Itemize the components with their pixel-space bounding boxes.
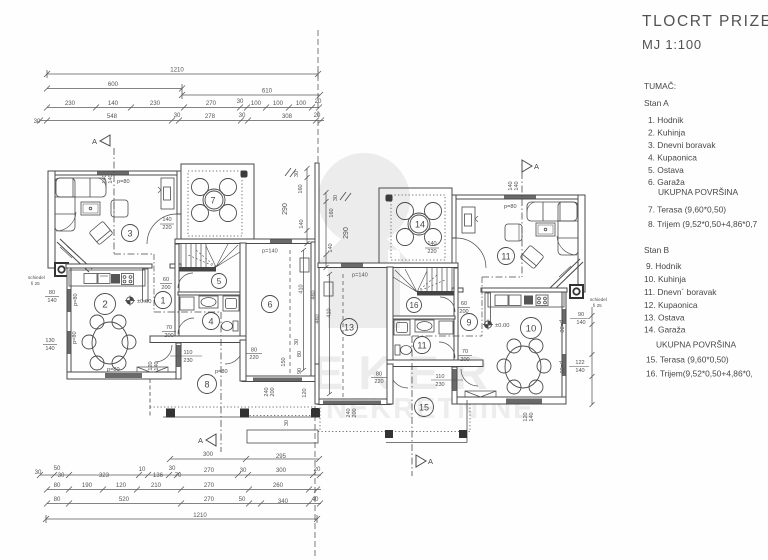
svg-text:30: 30 [333,195,339,201]
entrance door A arc [155,345,172,362]
svg-text:200: 200 [270,387,276,396]
hall room circle 9 [461,314,478,331]
svg-text:295: 295 [276,453,287,460]
garage A left wall lower [240,340,246,381]
kitchen A bottom window p=80 [105,373,142,378]
svg-text:50: 50 [54,465,61,472]
svg-text:A: A [92,137,97,146]
svg-text:50: 50 [239,496,246,503]
fridge B [485,293,491,325]
bath room circle 12 [414,337,431,354]
svg-text:15. Terasa (9,60*0,50): 15. Terasa (9,60*0,50) [646,355,729,365]
section marker B top [522,160,532,172]
svg-text:270: 270 [204,482,215,489]
entrance door B arc [461,369,478,386]
svg-text:160: 160 [329,208,335,217]
svg-text:340: 340 [278,498,289,505]
svg-text:230: 230 [150,100,161,107]
svg-text:30: 30 [58,472,65,479]
svg-text:±0.00: ±0.00 [137,299,151,305]
svg-text:2: 2 [102,300,108,311]
svg-text:p=80: p=80 [558,320,564,333]
svg-text:p=80: p=80 [107,367,120,373]
svg-text:270: 270 [204,467,215,474]
svg-text:20: 20 [314,466,321,473]
svg-text:UKUPNA POVRŠINA: UKUPNA POVRŠINA [658,187,738,197]
svg-text:5. Ostava: 5. Ostava [648,165,684,175]
svg-text:11: 11 [501,252,510,262]
svg-text:60: 60 [163,277,169,283]
svg-text:11: 11 [417,341,426,351]
svg-text:16: 16 [410,301,419,310]
svg-text:A: A [534,162,539,171]
svg-text:460: 460 [311,290,317,299]
svg-text:1210: 1210 [170,67,184,74]
stairs B [393,268,458,296]
porch B posts [312,408,319,415]
porch A posts [166,409,175,418]
svg-text:30: 30 [34,118,41,125]
svg-text:230: 230 [435,382,444,388]
svg-text:270: 270 [206,100,217,107]
wall living/kitchen A [66,264,152,268]
svg-text:6: 6 [267,300,272,310]
svg-text:9: 9 [466,318,471,328]
section jog lines [154,311,221,313]
svg-text:30: 30 [239,112,246,119]
svg-text:A: A [428,457,433,466]
step box A [137,367,168,379]
fireplace diagonal wall A [57,242,89,272]
svg-text:140: 140 [108,100,119,107]
svg-text:p=80: p=80 [72,331,78,344]
living room circle 11 [498,248,515,265]
living A coffee table [81,202,100,215]
svg-text:122: 122 [575,360,584,366]
svg-text:A: A [198,436,203,445]
svg-text:140: 140 [575,368,584,374]
window garage B top p=140 [341,264,363,268]
svg-text:140: 140 [299,219,305,228]
svg-text:p=80: p=80 [558,361,564,374]
svg-text:fi 25: fi 25 [593,303,602,308]
bottom dimension chains [37,406,323,556]
dim row 230 140 230 270 ... [47,107,319,109]
svg-text:200: 200 [352,408,358,417]
svg-text:140: 140 [108,174,114,183]
svg-text:140: 140 [576,320,585,326]
svg-text:230: 230 [183,358,192,364]
svg-text:110: 110 [436,374,445,380]
svg-text:120: 120 [116,482,127,489]
kitchen B left lower wall [452,367,457,404]
svg-text:548: 548 [107,113,118,120]
living B corner sofa [527,202,578,255]
terrace B chimney dot [386,195,393,202]
terrace A table 7 group [192,179,237,222]
svg-text:80: 80 [251,348,257,354]
svg-text:140: 140 [514,181,520,190]
porch B dashed outline [318,400,470,443]
terrace B table 14 group [397,203,442,246]
hall room circle 1 [155,292,172,309]
kitchen B right windows [563,309,566,324]
garage B porch door arc [390,370,408,388]
svg-text:160: 160 [298,184,304,193]
porch room circle 15 [415,398,434,417]
bottom wall hall/bath B [387,360,483,367]
section line A left [114,148,221,452]
garage A water heater box [300,258,309,272]
svg-text:MJ 1:100: MJ 1:100 [642,37,702,52]
stair room circle B [407,298,422,313]
stair room circle 5 [212,274,227,289]
living room circle 3 [122,225,139,242]
party wall A side [311,242,315,381]
bath A door arc [178,318,194,334]
kitchen room circle 10 [521,318,542,339]
wall bath/garage B [387,267,393,364]
svg-text:520: 520 [119,496,130,503]
side yard dim line B [324,190,329,270]
svg-text:140: 140 [529,412,535,421]
svg-text:323: 323 [99,472,110,479]
svg-text:220: 220 [162,225,171,231]
svg-text:p=80: p=80 [504,204,517,210]
svg-text:6. Garaža: 6. Garaža [648,177,685,187]
hall dash-dot divide B [481,277,483,336]
svg-text:120: 120 [302,388,308,397]
svg-text:210: 210 [151,482,162,489]
svg-text:200: 200 [161,285,170,291]
living A armchair [111,200,128,217]
svg-text:Stan A: Stan A [644,98,669,108]
svg-text:260: 260 [273,482,284,489]
dim row 300 295 [170,458,319,460]
toilet B [395,345,412,355]
svg-text:80: 80 [54,496,61,503]
svg-text:15: 15 [419,403,429,413]
porch A dashed outline [150,379,318,443]
fireplace diagonal wall B [553,262,583,291]
svg-text:TUMAČ:: TUMAČ: [644,81,676,91]
storage door arc A [178,273,193,288]
svg-text:80: 80 [376,372,382,378]
svg-text:140: 140 [45,346,54,352]
party wall axis dashed [317,30,319,163]
kitchen counter A [69,270,145,286]
kitchen counter B [488,292,564,307]
svg-text:190: 190 [82,482,93,489]
living A armchair rotated [89,221,113,245]
living room A right wall [177,171,181,214]
svg-text:10: 10 [526,324,537,335]
section line B [412,172,522,476]
window top living B p=80 [504,196,536,199]
svg-text:Stan B: Stan B [644,245,670,255]
svg-text:10. Kuhinja: 10. Kuhinja [644,274,686,284]
garage B left wall lower [315,364,319,404]
section marker A bottom [206,434,216,446]
svg-text:70: 70 [175,472,182,479]
svg-text:30: 30 [240,467,247,474]
svg-text:290: 290 [343,227,350,239]
svg-text:p=80: p=80 [215,369,228,375]
title block [642,13,768,52]
svg-text:9. Hodnik: 9. Hodnik [646,261,682,271]
living A corner sofa [55,178,106,231]
wall bath/garage A [240,243,246,340]
svg-text:30: 30 [35,469,42,476]
living B armchair [505,224,522,241]
svg-text:7. Terasa (9,60*0,50): 7. Terasa (9,60*0,50) [648,205,726,215]
hall/kitchen right wall A [175,244,179,340]
svg-text:4. Kupaonica: 4. Kupaonica [648,153,697,163]
svg-text:8: 8 [204,380,209,390]
bath B door arc [439,342,455,358]
svg-text:20: 20 [315,98,322,105]
svg-text:2. Kuhinja: 2. Kuhinja [648,128,686,138]
terrace A outline [181,164,254,240]
party wall B side [315,163,319,402]
svg-text:140: 140 [328,243,334,252]
svg-text:TLOCRT PRIZEMLJA: TLOCRT PRIZEMLJA [642,13,768,30]
kitchen A left windows [68,289,71,312]
svg-text:80: 80 [54,482,61,489]
svg-text:80: 80 [297,351,303,357]
svg-text:7: 7 [210,196,215,206]
section marker B bottom [416,455,426,467]
wall stairs/garage top A [175,239,315,244]
right margin dim chain [590,307,595,407]
entrance door B panel [453,369,457,391]
svg-text:30: 30 [174,112,181,119]
garage A interior dim line 410 [301,248,306,372]
small dimension labels [28,171,607,426]
svg-text:110: 110 [184,350,193,356]
side yard dim line A [305,166,310,246]
svg-text:13. Ostava: 13. Ostava [644,313,685,323]
level mark B [483,320,493,330]
svg-text:100: 100 [296,100,307,107]
svg-text:600: 600 [108,81,119,88]
svg-text:30: 30 [284,420,290,426]
svg-text:p=80: p=80 [73,293,79,306]
svg-text:1: 1 [160,296,165,306]
section marker A top [100,135,110,146]
porch room circle 8 [198,375,217,394]
door living-terrace B [456,238,486,268]
level mark A [125,296,135,306]
toilet A [222,321,239,331]
svg-text:1210: 1210 [193,512,207,519]
svg-text:12. Kupaonica: 12. Kupaonica [644,300,698,310]
bath B top wall [391,316,455,319]
living A wall unit [158,178,174,209]
svg-text:100: 100 [251,100,262,107]
entrance door A panel [177,345,181,367]
svg-text:220: 220 [427,249,436,255]
dim row 1210 [47,73,318,75]
garage B bottom wall [318,399,391,405]
svg-text:3: 3 [127,229,132,239]
living room A top wall [48,171,181,175]
svg-text:200: 200 [459,309,468,315]
svg-text:16. Trijem(9,52*0,50+4,86*0,: 16. Trijem(9,52*0,50+4,86*0, [646,369,753,379]
garage B interior dim line 410 [327,272,332,396]
svg-text:150: 150 [281,357,287,366]
hall/kitchen left wall B [454,268,458,364]
kitchen A left wall [67,268,71,379]
svg-text:1. Hodnik: 1. Hodnik [648,115,684,125]
svg-text:30: 30 [169,465,176,472]
kitchen A window labels [45,290,56,352]
garage room circle 6 [262,296,279,313]
svg-text:11. Dnevn´ boravak: 11. Dnevn´ boravak [644,287,717,297]
svg-text:10: 10 [139,466,146,473]
svg-text:200: 200 [164,333,173,339]
svg-text:70: 70 [462,349,468,355]
svg-text:30: 30 [294,171,300,177]
svg-text:70: 70 [166,325,172,331]
dim row 30 50 323 10 136 ... [40,474,321,476]
svg-text:20: 20 [314,112,321,119]
svg-text:100: 100 [273,100,284,107]
dim row 600 / 610 [47,88,182,90]
dim row 548 30 278 30 308 20 [40,120,324,122]
door living-terrace A [147,214,177,244]
svg-text:30: 30 [294,339,300,345]
chimney labels [28,275,607,308]
storage door arc B [440,297,455,312]
garage A bottom wall [242,376,315,382]
svg-text:UKUPNA POVRŠINA: UKUPNA POVRŠINA [656,340,736,350]
bath A fixtures: washer, sink, shower [180,296,239,311]
dining table A oval [82,315,136,370]
bottom wall hall/bath A [150,336,246,343]
garage room circle 13 [341,319,358,336]
svg-text:278: 278 [205,113,216,120]
wall stairs/garage top B [318,263,458,268]
kitchen A bottom wall [67,372,181,379]
svg-text:140: 140 [154,361,160,370]
svg-text:300: 300 [276,467,287,474]
step box B [465,391,496,403]
living room B right wall [578,195,585,292]
kitchen B right wall [562,292,566,404]
terrace A chimney dot [241,171,248,178]
svg-text:40: 40 [312,496,319,503]
svg-text:270: 270 [204,496,215,503]
dining table B oval [497,339,551,394]
hall dash-dot divide A [153,254,155,312]
living B wall unit [462,207,478,233]
chimney B schiedel [570,285,583,298]
dim row 1210 bottom [46,518,317,520]
living B coffee table [536,223,555,236]
svg-text:14: 14 [415,220,425,230]
kitchen A right lower wall [176,343,181,379]
living room B left wall [452,195,456,238]
kitchen B window labels [575,312,585,374]
window top living A p=80 [97,172,129,175]
bath room circle 4 [203,313,220,330]
garage A porch door arc [225,346,243,364]
svg-text:80: 80 [49,290,55,296]
terrace A inner dotted [188,171,242,236]
svg-text:fi 25: fi 25 [31,281,40,286]
svg-text:90: 90 [578,312,584,318]
party axis dashed bottom [314,406,316,556]
kitchen B bottom wall [452,397,566,404]
svg-text:308: 308 [282,113,293,120]
chimney A schiedel [55,263,68,276]
break marks A [285,168,296,177]
svg-text:±0.00: ±0.00 [495,323,509,329]
svg-text:290: 290 [282,203,289,215]
terrace B outline [379,188,452,264]
kitchen B bottom window [506,399,542,404]
svg-text:220: 220 [374,379,383,385]
break marks B [340,192,351,201]
svg-text:30: 30 [237,98,244,105]
dim row 80 190 120 210 270 260 [47,489,321,491]
svg-text:410: 410 [299,284,305,293]
svg-text:5: 5 [217,277,222,286]
window garage A top p=140 [270,240,292,244]
svg-text:p=140: p=140 [352,273,368,279]
garage door B [323,401,381,405]
stairs A [175,243,240,272]
wall living/kitchen B [481,288,567,292]
svg-text:230: 230 [65,100,76,107]
watermark [312,153,535,425]
svg-text:8. Trijem (9,52*0,50+4,86*0,7: 8. Trijem (9,52*0,50+4,86*0,7 [648,219,758,229]
kitchen room circle 2 [95,294,116,315]
svg-text:90: 90 [297,368,303,374]
svg-text:140: 140 [162,217,171,223]
garage A roof dashed line [289,250,291,374]
svg-text:p=140: p=140 [262,249,278,255]
garage B water heater box [324,282,333,296]
garage B roof dashed line [342,274,344,398]
svg-text:300: 300 [203,451,214,458]
svg-text:60: 60 [461,301,467,307]
svg-text:130: 130 [45,338,54,344]
svg-text:140: 140 [47,298,56,304]
svg-text:140: 140 [427,241,436,247]
terrace B inner dotted [391,195,445,260]
svg-text:13: 13 [344,323,354,333]
svg-text:220: 220 [249,355,258,361]
svg-text:p=80: p=80 [117,179,130,185]
svg-text:410: 410 [327,308,333,317]
fridge A [143,269,149,301]
dim row 80 520 270 50 340 40 [47,503,321,505]
svg-text:460: 460 [315,314,321,323]
living room B top wall [452,195,585,199]
bath A top wall [178,292,242,295]
svg-text:200: 200 [460,357,469,363]
svg-text:136: 136 [153,472,164,479]
svg-text:schiedel: schiedel [28,275,45,280]
svg-text:schiedel: schiedel [590,297,607,302]
garage door A [253,378,302,382]
svg-text:4: 4 [208,317,213,327]
living B armchair rotated [520,245,544,269]
svg-text:610: 610 [262,88,273,95]
svg-text:3. Dnevni boravak: 3. Dnevni boravak [648,140,716,150]
